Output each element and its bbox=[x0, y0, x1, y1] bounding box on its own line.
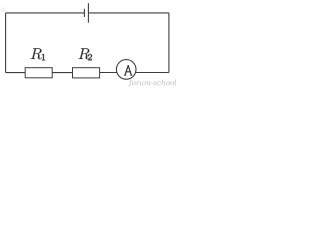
resistor R2 bbox=[73, 68, 100, 78]
battery B1 long plate (positive) bbox=[87, 3, 89, 23]
wire R2 to ammeter bbox=[100, 72, 117, 74]
ammeter A1 circle bbox=[116, 60, 136, 80]
label R1 bbox=[31, 48, 45, 60]
wire bottom-left (corner to R1) bbox=[6, 72, 26, 74]
wire right side bbox=[168, 13, 170, 73]
watermark bottom-right bbox=[129, 80, 187, 87]
wire ammeter to bottom-right corner bbox=[135, 72, 169, 74]
wire left side bbox=[5, 13, 7, 73]
background bbox=[0, 0, 176, 87]
battery B1 short plate (negative) bbox=[83, 9, 85, 17]
wire between R1 and R2 bbox=[52, 72, 72, 74]
wire top-left segment (battery lead) bbox=[6, 12, 85, 14]
wire top-right segment (battery lead) bbox=[88, 12, 168, 14]
resistor R1 bbox=[25, 68, 52, 78]
watermark fragment top-left bbox=[1, 7, 6, 12]
ammeter letter A bbox=[124, 66, 131, 76]
label R2 bbox=[78, 48, 92, 60]
